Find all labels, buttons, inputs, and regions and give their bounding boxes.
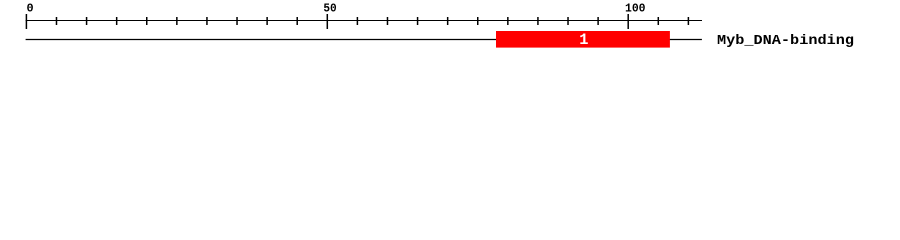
svg-text:Myb_DNA-binding: Myb_DNA-binding: [717, 33, 854, 49]
ruler minor tick 80: [507, 17, 509, 25]
ruler minor tick 35: [236, 17, 238, 25]
ruler minor tick 70: [447, 17, 449, 25]
background: [0, 0, 900, 58]
ruler minor tick 20: [146, 17, 148, 25]
ruler minor tick 55: [356, 17, 358, 25]
ruler minor tick 40: [266, 17, 268, 25]
ruler minor tick 105: [657, 17, 659, 25]
svg-text:100: 100: [625, 2, 646, 16]
ruler major tick 100: [627, 14, 629, 29]
ruler minor tick 15: [116, 17, 118, 25]
ruler minor tick 110: [687, 17, 689, 25]
ruler minor tick 65: [417, 17, 419, 25]
ruler minor tick 30: [206, 17, 208, 25]
ruler minor tick 10: [86, 17, 88, 25]
ruler minor tick 60: [386, 17, 388, 25]
domain box 1 (Myb_DNA-binding): [496, 31, 670, 48]
ruler major tick 0: [25, 14, 27, 29]
ruler minor tick 45: [296, 17, 298, 25]
ruler minor tick 90: [567, 17, 569, 25]
svg-text:50: 50: [323, 2, 336, 16]
ruler axis line: [26, 20, 702, 22]
svg-text:0: 0: [27, 2, 34, 16]
ruler major tick 50: [326, 14, 328, 29]
sequence line: [26, 39, 702, 41]
ruler minor tick 25: [176, 17, 178, 25]
ruler minor tick 75: [477, 17, 479, 25]
ruler minor tick 85: [537, 17, 539, 25]
ruler minor tick 5: [55, 17, 57, 25]
ruler minor tick 95: [597, 17, 599, 25]
svg-text:1: 1: [579, 31, 588, 49]
